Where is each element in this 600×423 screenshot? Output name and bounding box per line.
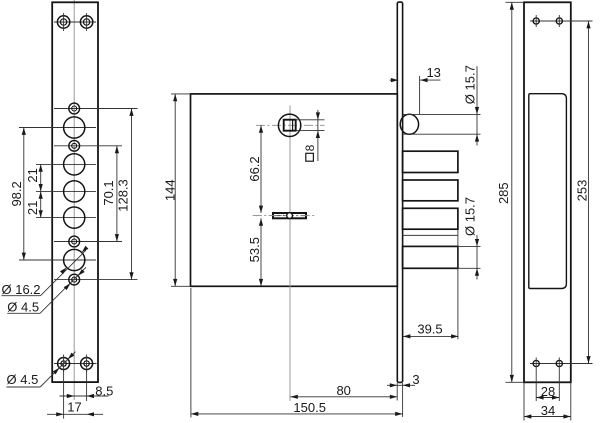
extension line C3 [54, 145, 122, 147]
key hole extension line [253, 215, 315, 217]
extension body left below [190, 288, 192, 418]
hole C1 small [69, 103, 80, 114]
centerline of left plate [73, 0, 75, 400]
left face plate outline [52, 2, 98, 382]
screw hole bottom-left [58, 355, 70, 373]
dimension 28 [536, 384, 559, 400]
square spindle hole [284, 120, 296, 131]
svg-text:70.1: 70.1 [101, 180, 116, 205]
dimension 70.1 [101, 146, 119, 242]
body vertical centerline [289, 106, 291, 402]
bolt bar 3 [403, 208, 458, 229]
extension line C6 [36, 217, 96, 219]
dimension 17 [47, 399, 103, 416]
extension strike holes below left [535, 370, 537, 402]
extension line C1 [54, 108, 138, 110]
extension bolt right vertical [457, 229, 459, 339]
dimension 3 [387, 372, 420, 387]
strike plate recess [529, 94, 567, 289]
screw hole top-right [80, 13, 92, 31]
extension strike edges below right [570, 382, 572, 420]
dimension 66.2 [247, 125, 263, 213]
extension line C7 [54, 241, 122, 243]
svg-text:Ø 4.5: Ø 4.5 [7, 372, 39, 387]
extension line C2 [19, 127, 96, 129]
hole C5 large [64, 181, 85, 202]
svg-text:28: 28 [541, 384, 555, 399]
hole C4 large [64, 154, 85, 175]
crosshair line bottom screw holes [54, 363, 97, 365]
extension strike edges below left [523, 382, 525, 420]
extension 13 right [419, 76, 421, 115]
extension bolt4 top [458, 245, 481, 247]
dimension 21 lower [25, 191, 43, 217]
hole C6 large [64, 207, 85, 228]
leader dia 4.5 mid [7, 267, 86, 314]
svg-text:80: 80 [336, 383, 350, 398]
bolt bar 1 [403, 151, 458, 172]
strike hole bottom-left [533, 358, 539, 370]
extension line C8 [19, 259, 96, 261]
key bit profile [273, 213, 306, 218]
svg-text:Ø 15.7: Ø 15.7 [463, 197, 478, 236]
dimension 34 [524, 403, 571, 419]
leader dia 16.2 [2, 246, 89, 297]
extension strike holes below right [558, 370, 560, 402]
crosshair line top screw holes [54, 21, 96, 23]
extension body top-left [171, 93, 191, 95]
crosshair line top holes [530, 20, 593, 22]
hole C2 large [64, 117, 85, 138]
bolt bar 2 [403, 180, 458, 201]
dimension 285 [496, 2, 514, 382]
thin guide line [403, 234, 458, 236]
svg-text:13: 13 [426, 65, 440, 80]
svg-text:17: 17 [67, 399, 81, 414]
square hole inner edge [292, 120, 294, 131]
svg-text:Ø 16.2: Ø 16.2 [2, 282, 41, 297]
extension strike top [506, 1, 525, 3]
svg-text:34: 34 [541, 403, 555, 418]
hole C7 small [69, 236, 80, 247]
extension line C4 [36, 163, 96, 165]
hole C8 large [64, 249, 85, 270]
svg-text:128.3: 128.3 [115, 179, 130, 212]
extension square bottom [296, 130, 325, 132]
key hole circle [287, 213, 293, 219]
extension bolt4 bottom [458, 267, 481, 269]
svg-text:39.5: 39.5 [417, 321, 442, 336]
svg-text:150.5: 150.5 [293, 400, 326, 415]
screw hole bottom-right [81, 355, 93, 373]
dimension dia 15.7 top [462, 65, 479, 145]
svg-text:144: 144 [163, 179, 178, 201]
svg-text:285: 285 [496, 182, 511, 204]
extension faceplate right below [402, 383, 404, 417]
svg-text:21: 21 [25, 201, 40, 215]
svg-text:Ø 15.7: Ø 15.7 [462, 65, 477, 104]
screw hole top-left [57, 13, 69, 31]
dimension 98.2 [9, 128, 26, 261]
svg-text:8.5: 8.5 [95, 383, 113, 398]
crosshair line bottom holes [530, 363, 593, 365]
extension latch bottom [403, 133, 481, 135]
bolt bar 4 [403, 246, 458, 268]
key bit center dash [274, 215, 305, 217]
extension line C5 [36, 190, 96, 192]
dimension 13 [390, 65, 441, 82]
hole C3 small [69, 140, 80, 151]
svg-text:53.5: 53.5 [247, 237, 262, 262]
extension strike bottom [506, 381, 525, 383]
lock body outline [191, 94, 398, 286]
strike hole top-left [533, 15, 539, 27]
dimension 39.5 [403, 321, 459, 338]
svg-text:Ø 4.5: Ø 4.5 [7, 300, 39, 315]
dimension 150.5 [191, 400, 403, 416]
dimension 8.5 [60, 383, 114, 398]
dimension dia 15.7 bottom [463, 197, 480, 280]
svg-text:66.2: 66.2 [247, 156, 262, 181]
leader dia 4.5 bottom [7, 352, 76, 387]
svg-text:3: 3 [412, 372, 419, 387]
dimension 144 [163, 94, 178, 286]
svg-text:253: 253 [575, 180, 590, 202]
extension body bottom-left [171, 285, 191, 287]
strike hole bottom-right [556, 358, 562, 370]
svg-text:98.2: 98.2 [9, 181, 24, 206]
hole C9 small [69, 274, 80, 285]
extension latch top [403, 113, 481, 115]
dimension 128.3 [115, 109, 133, 280]
extension below bottom-left hole [63, 370, 65, 419]
latch bolt circle [400, 114, 418, 134]
dimension 53.5 [247, 218, 263, 286]
dimension 80 [290, 383, 397, 399]
dimension square 8 [303, 110, 320, 161]
svg-text:8: 8 [303, 144, 317, 151]
dimension 21 upper [25, 164, 43, 191]
strike hole top-right [556, 15, 562, 27]
svg-text:21: 21 [25, 168, 40, 182]
extension line C9 [54, 279, 138, 281]
extension faceplate left below [396, 383, 398, 401]
strike plate outline [524, 2, 571, 382]
dimension 253 [575, 21, 591, 364]
extension square top [296, 119, 325, 121]
spindle centerline dash-dot [256, 124, 325, 126]
spindle hub circle [278, 114, 300, 136]
extension below bottom-right hole [86, 370, 88, 401]
face plate edge view [397, 2, 402, 382]
